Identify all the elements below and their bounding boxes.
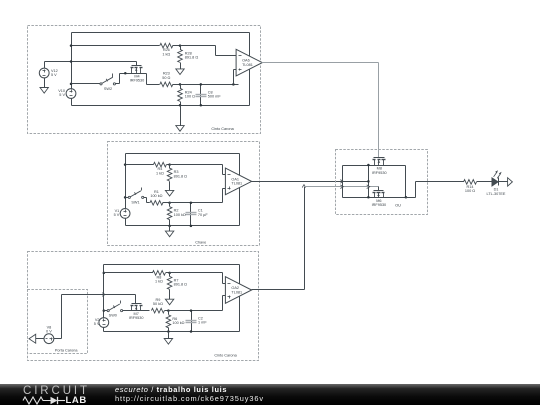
dashed box Cinto Carona (bottom)	[28, 252, 259, 361]
LED D1 LTL-307EE	[492, 178, 498, 186]
node V12/rail junction	[70, 60, 73, 63]
resistor R9 50k	[151, 308, 164, 313]
wire R8 node to OA2 minus	[170, 272, 223, 274]
svg-text:5 V: 5 V	[94, 322, 100, 326]
resistor R26 1k	[72, 45, 160, 47]
voltage source V12 5V	[39, 68, 49, 78]
dashed box Porta Carona	[28, 290, 88, 354]
svg-text:TL081: TL081	[242, 63, 253, 67]
voltage source V8 0V	[44, 334, 54, 344]
wire R23 node to plus input	[181, 84, 239, 86]
dashed box Chave	[108, 142, 260, 246]
transistor M8 IRF9530	[374, 157, 385, 159]
svg-text:100 Ω: 100 Ω	[185, 95, 195, 99]
ground under R6	[168, 332, 170, 339]
svg-text:SW2: SW2	[104, 87, 112, 91]
wire V12 top	[44, 62, 46, 69]
svg-text:LTL-307EE: LTL-307EE	[487, 192, 506, 196]
node rail/SW2	[70, 83, 73, 86]
ground under R24	[180, 106, 182, 126]
svg-text:100 Ω: 100 Ω	[465, 189, 475, 193]
wire OA6 output to OR block	[262, 62, 379, 64]
wire R9 node to OA2 plus	[169, 310, 223, 312]
resistor R7 891.8 Ohm	[169, 273, 171, 277]
svg-text:SW0: SW0	[109, 313, 117, 317]
ground under V12	[44, 78, 46, 88]
wire V12 to M4 gate	[45, 61, 137, 63]
node R23/R24	[179, 83, 182, 86]
wire SW2 to loop	[116, 83, 120, 85]
switch SW1	[124, 196, 127, 199]
resistor R24 100 Ohm	[180, 85, 182, 89]
node R26/R28	[179, 44, 182, 47]
svg-text:5 V: 5 V	[59, 93, 65, 97]
wire inner loop bottom circuit	[104, 264, 240, 266]
wire OR block output	[406, 197, 416, 199]
resistor R2 100k	[169, 203, 171, 207]
wire (light) to OR block	[305, 186, 343, 188]
transistor M7 IRF9530	[132, 303, 142, 305]
node R8/R7	[168, 272, 171, 275]
op-amp OA1 TL081	[225, 168, 251, 195]
wire SW1 to R1	[146, 198, 148, 203]
node R9/R6	[167, 309, 170, 312]
dashed box Cinto Carona (top)	[28, 26, 261, 134]
transistor M4 IRF9530	[132, 65, 142, 67]
svg-text:SW1: SW1	[131, 201, 139, 205]
svg-text:50 Ω: 50 Ω	[162, 76, 170, 80]
OR block rails	[343, 165, 406, 167]
ground left of V8	[36, 338, 45, 340]
wire R1 node to OA1 plus	[170, 202, 223, 204]
wire1 into OR block (from OA1)	[340, 180, 343, 184]
capacitor C2 1 mF	[191, 311, 193, 332]
wire inner loop middle circuit	[126, 153, 240, 155]
svg-text:100 kΩ: 100 kΩ	[172, 321, 184, 325]
switch SW0	[103, 309, 106, 312]
node R1/R2	[168, 202, 171, 205]
resistor R28 891.8 Ohm	[180, 46, 182, 50]
op-amp OA6 TL081	[236, 49, 262, 76]
wire R4 node to OA1 minus	[170, 164, 223, 166]
node R4/R3	[168, 163, 171, 166]
resistor R4 1k	[124, 163, 127, 166]
svg-text:1 kΩ: 1 kΩ	[162, 52, 170, 56]
wire to SW2	[72, 83, 101, 85]
svg-text:IRF9530: IRF9530	[372, 203, 387, 207]
junction on M4 rail	[124, 72, 127, 75]
svg-text:OU: OU	[395, 202, 401, 207]
svg-text:5 V: 5 V	[51, 73, 57, 77]
transistor M6 IRF9530	[374, 190, 384, 192]
output flag OUT	[508, 178, 513, 186]
resistor R14 100 Ohm	[464, 180, 477, 185]
svg-text:891.8 Ω: 891.8 Ω	[185, 56, 199, 60]
svg-text:TL081: TL081	[231, 182, 242, 186]
svg-text:Chave: Chave	[195, 240, 206, 244]
voltage source V10 5V	[66, 89, 76, 99]
svg-text:TL081: TL081	[231, 290, 242, 294]
resistor R8 1k	[103, 272, 106, 275]
svg-text:891.8 Ω: 891.8 Ω	[174, 283, 188, 287]
svg-text:100 kΩ: 100 kΩ	[150, 194, 162, 198]
svg-text:1 kΩ: 1 kΩ	[156, 171, 164, 175]
wire OA1 output to OR block	[252, 181, 369, 183]
capacitor C8 500 mF	[200, 85, 202, 106]
wire OA2 output to OR block	[252, 289, 305, 291]
arrow at wire corner	[302, 185, 306, 188]
ground under R28	[176, 69, 184, 75]
voltage source V1 5V	[120, 209, 130, 219]
ground under R2	[169, 226, 171, 232]
op-amp OA2 TL081	[225, 277, 251, 304]
voltage source V2 5V	[99, 318, 109, 328]
svg-text:50 kΩ: 50 kΩ	[153, 302, 163, 306]
resistor R23 50 Ohm	[147, 84, 160, 86]
svg-text:1 kΩ: 1 kΩ	[155, 280, 163, 284]
resistor R3 891.8 Ohm	[169, 165, 171, 169]
wire2 (light) across OR block to M6 gate	[343, 186, 379, 188]
wire R26 junction to opamp minus input	[181, 45, 216, 47]
resistor R1 100k	[150, 201, 163, 206]
svg-text:IRF9530: IRF9530	[129, 316, 144, 320]
svg-text:891.8 Ω: 891.8 Ω	[174, 174, 188, 178]
ground under R7	[165, 299, 173, 305]
hop over rail	[102, 293, 105, 297]
ground under R3	[165, 190, 173, 196]
capacitor C1 70 uF	[190, 203, 192, 226]
svg-text:100 kΩ: 100 kΩ	[174, 213, 186, 217]
svg-text:Cinto Carona: Cinto Carona	[211, 127, 234, 131]
wire M4 source/drain rail	[119, 74, 121, 84]
svg-text:IRF9530: IRF9530	[372, 171, 387, 175]
svg-text:5 V: 5 V	[114, 213, 120, 217]
svg-text:Cinto Carona: Cinto Carona	[214, 354, 237, 358]
svg-text:1 mF: 1 mF	[198, 321, 207, 325]
svg-text:IRF9530: IRF9530	[130, 79, 145, 83]
svg-text:Porta Carona: Porta Carona	[55, 349, 78, 353]
dashed box OU	[336, 150, 428, 215]
svg-text:500 mF: 500 mF	[208, 95, 222, 99]
wire V8 to M7 gate	[54, 338, 62, 340]
resistor R6 100k	[168, 311, 170, 315]
wire inner loop top circuit	[72, 32, 250, 34]
svg-text:70 µF: 70 µF	[198, 213, 208, 217]
svg-text:0 V: 0 V	[46, 330, 52, 334]
